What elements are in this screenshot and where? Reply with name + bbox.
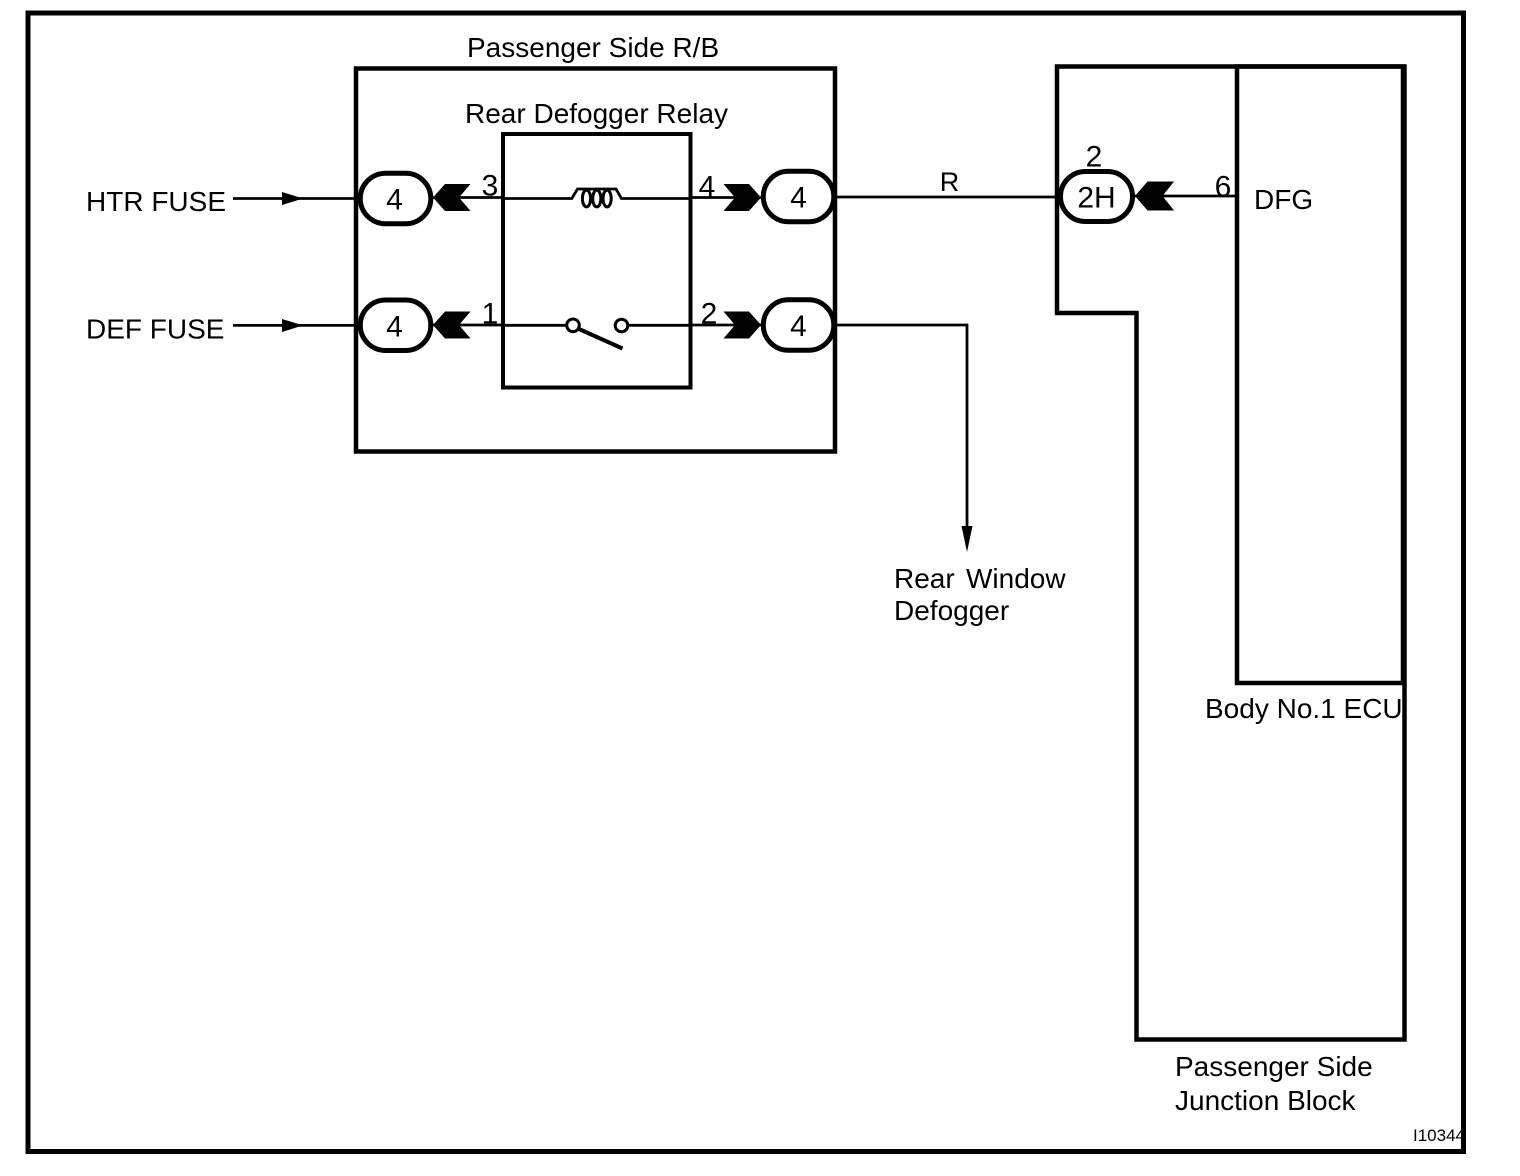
down arrowhead to rear window defogger xyxy=(962,526,973,552)
connector oval 2H xyxy=(1061,172,1133,222)
svg-text:6: 6 xyxy=(1215,171,1232,204)
svg-text:HTR FUSE: HTR FUSE xyxy=(86,186,226,217)
svg-text:3: 3 xyxy=(482,170,499,203)
relay box Rear Defogger Relay xyxy=(503,134,691,388)
svg-text:Defogger: Defogger xyxy=(894,595,1009,626)
svg-text:Passenger Side R/B: Passenger Side R/B xyxy=(467,32,719,63)
svg-text:2: 2 xyxy=(701,298,718,331)
Body No.1 ECU box xyxy=(1237,67,1403,684)
svg-text:DEF FUSE: DEF FUSE xyxy=(86,314,224,345)
svg-text:4: 4 xyxy=(386,310,403,343)
wire R net xyxy=(836,196,1058,199)
svg-text:I10344: I10344 xyxy=(1413,1126,1465,1145)
svg-text:DFG: DFG xyxy=(1254,184,1313,215)
chevron arrow into oval B xyxy=(433,312,471,339)
svg-text:Rear: Rear xyxy=(894,563,955,594)
svg-text:4: 4 xyxy=(699,171,716,204)
wire DFG to 2H chevron xyxy=(1135,195,1237,198)
chevron arrow into 2H xyxy=(1135,182,1174,211)
svg-text:2: 2 xyxy=(1086,141,1103,174)
chevron arrow into oval A xyxy=(433,184,471,211)
wire relay box to pin4 oval xyxy=(691,196,762,199)
connector oval D pin 4 xyxy=(763,300,834,351)
chevron arrow into oval C xyxy=(724,184,762,211)
svg-text:Rear Defogger Relay: Rear Defogger Relay xyxy=(465,98,728,129)
svg-text:Window: Window xyxy=(966,563,1066,594)
chevron arrow into oval D xyxy=(724,312,762,339)
wire pin3 to relay box xyxy=(430,196,503,199)
junction block outline xyxy=(1057,67,1405,1040)
arrowhead on HTR FUSE wire xyxy=(282,192,303,205)
svg-text:2H: 2H xyxy=(1077,182,1115,215)
svg-text:4: 4 xyxy=(790,182,807,215)
wire pin1 to relay box xyxy=(430,324,503,327)
svg-text:Junction Block: Junction Block xyxy=(1175,1085,1357,1116)
wire relay box to pin2 oval xyxy=(691,324,762,327)
wire HTR FUSE lead xyxy=(233,197,359,200)
connector oval A pin 4 xyxy=(360,173,431,224)
svg-text:1: 1 xyxy=(482,298,499,331)
relay switch contact xyxy=(503,319,691,349)
wire DEF FUSE lead xyxy=(233,324,359,327)
connector oval C pin 4 xyxy=(763,171,834,222)
svg-text:Passenger Side: Passenger Side xyxy=(1175,1051,1373,1082)
connector oval B pin 4 xyxy=(360,300,431,351)
arrowhead on DEF FUSE wire xyxy=(282,319,303,332)
svg-text:4: 4 xyxy=(386,184,403,217)
relay coil with leads xyxy=(503,189,691,207)
wire to rear window defogger xyxy=(836,325,967,546)
svg-text:R: R xyxy=(940,167,960,197)
Passenger Side R/B box xyxy=(356,69,835,452)
svg-text:4: 4 xyxy=(790,310,807,343)
svg-text:Body No.1 ECU: Body No.1 ECU xyxy=(1205,693,1403,724)
